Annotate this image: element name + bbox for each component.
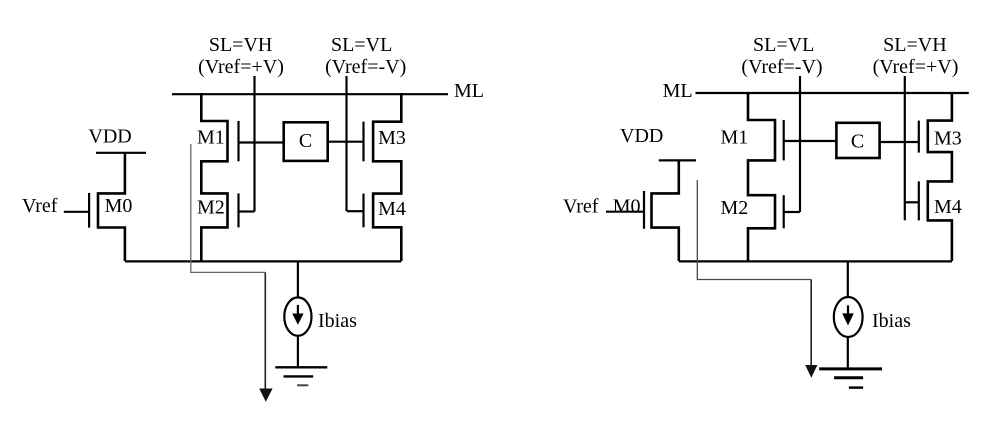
- svg-text:M3: M3: [378, 127, 406, 149]
- svg-text:M2: M2: [197, 197, 225, 219]
- svg-text:VDD: VDD: [620, 125, 663, 147]
- svg-text:M2: M2: [721, 197, 749, 219]
- svg-text:SL=VL: SL=VL: [331, 34, 392, 56]
- svg-text:SL=VH: SL=VH: [209, 34, 273, 56]
- svg-text:M0: M0: [105, 195, 133, 217]
- svg-text:C: C: [299, 130, 312, 152]
- svg-text:Vref: Vref: [563, 196, 599, 218]
- svg-text:C: C: [851, 131, 864, 153]
- svg-text:ML: ML: [663, 80, 693, 102]
- svg-text:M0: M0: [613, 196, 641, 218]
- svg-text:M4: M4: [934, 196, 962, 218]
- svg-text:SL=VH: SL=VH: [883, 34, 947, 56]
- svg-text:M4: M4: [378, 198, 406, 220]
- svg-text:(Vref=-V): (Vref=-V): [741, 56, 822, 78]
- svg-text:(Vref=+V): (Vref=+V): [873, 56, 959, 78]
- svg-text:ML: ML: [454, 80, 484, 102]
- svg-text:(Vref=-V): (Vref=-V): [325, 56, 406, 78]
- svg-text:(Vref=+V): (Vref=+V): [198, 56, 284, 78]
- svg-text:VDD: VDD: [88, 126, 131, 148]
- svg-text:M1: M1: [197, 127, 225, 149]
- svg-text:Vref: Vref: [22, 195, 58, 217]
- svg-text:M1: M1: [721, 127, 749, 149]
- svg-text:M3: M3: [934, 128, 962, 150]
- svg-text:Ibias: Ibias: [318, 310, 357, 332]
- svg-text:SL=VL: SL=VL: [753, 34, 814, 56]
- svg-text:Ibias: Ibias: [872, 310, 911, 332]
